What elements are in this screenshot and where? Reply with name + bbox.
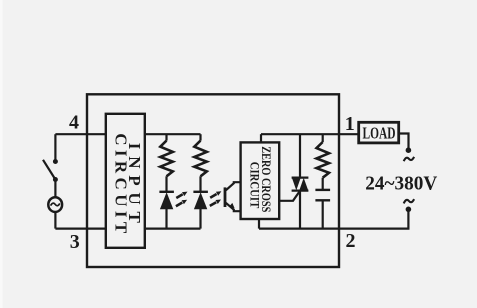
svg-text:LOAD: LOAD [363, 124, 396, 143]
wire: triac gate lead [279, 191, 300, 201]
ac tilde bottom [404, 199, 414, 203]
zero cross circuit block U2 [241, 142, 280, 219]
LED D2 triangle [194, 192, 207, 209]
triac Q2 right triangle [299, 178, 308, 191]
wire: triac upper lead [299, 134, 301, 177]
LED D1 emission arrows [176, 200, 187, 206]
snubber capacitor C1 bottom plate [315, 199, 330, 201]
wire: bottom terminal to terminal 2 [339, 209, 408, 228]
wire: C1 to bottom rail [322, 200, 324, 228]
svg-text:24~380V: 24~380V [365, 172, 438, 194]
svg-text:4: 4 [69, 112, 79, 134]
phototransistor Q1 emitter arrowhead [229, 203, 235, 208]
ac tilde top [404, 157, 414, 161]
svg-text:1: 1 [345, 113, 355, 135]
wire: terminal 4 rail (left top) [55, 133, 106, 135]
wire: terminal 3 rail (left bottom) [55, 228, 106, 230]
phototransistor Q1 base bar [224, 187, 227, 207]
wire: snubber branch top [322, 134, 324, 142]
snubber resistor R3 [317, 142, 330, 178]
wire: R2 to D2 [199, 176, 201, 192]
switch S1 contact dots [53, 159, 58, 182]
wire: output top rail to LOAD [261, 133, 359, 135]
wire: AC source to bottom rail [54, 212, 56, 229]
zero cross circuit block U2 text [247, 146, 273, 212]
snubber capacitor C1 top plate [315, 189, 330, 191]
resistor R1 [160, 141, 173, 177]
svg-text:CIRCUIT: CIRCUIT [247, 162, 261, 209]
wire: LOAD to top terminal [399, 134, 409, 149]
wire: LED section top rail [145, 133, 201, 135]
wire: R1 to D1 [165, 176, 167, 192]
svg-text:3: 3 [70, 231, 80, 253]
svg-text:2: 2 [346, 230, 356, 252]
resistor R2 [194, 141, 207, 177]
wire: switch to AC source [54, 180, 56, 198]
triac Q2 bottom bar [292, 189, 309, 191]
left page edge highlight [0, 0, 3, 308]
LED D1 triangle [160, 192, 173, 209]
phototransistor Q1 emitter lead [226, 203, 241, 211]
wire: output bottom rail [259, 228, 339, 230]
wire: D1 to bottom rail [165, 209, 167, 229]
wire: upper lead to switch [54, 134, 56, 160]
phototransistor Q1 collector lead [226, 182, 241, 190]
wire: branch 2 top [199, 134, 201, 140]
input circuit block U1 [106, 114, 145, 248]
LOAD box [359, 122, 399, 143]
input circuit block U1 text [112, 133, 145, 234]
wire: branch 1 top [165, 134, 167, 140]
triac Q2 top bar [292, 176, 309, 178]
LED D2 emission arrows [210, 200, 221, 206]
switch S1 blade [43, 160, 55, 180]
wire: LED section bottom rail [145, 228, 201, 230]
AC source G1 sine [51, 203, 60, 206]
wire: R3 to C1 [322, 178, 324, 190]
LED D1 cathode bar [159, 191, 174, 193]
LED D2 cathode bar [193, 191, 208, 193]
wire: triac lower lead [299, 191, 301, 229]
wire: D2 to bottom rail [199, 209, 201, 229]
AC source G1 circle [48, 197, 62, 212]
top terminal dot [406, 147, 412, 153]
wire: zero cross top stub [260, 134, 262, 142]
bottom terminal dot [406, 207, 412, 213]
wire: zero cross bottom stub [258, 219, 260, 229]
SSR outline box [87, 94, 339, 267]
triac Q2 left triangle [292, 178, 301, 191]
